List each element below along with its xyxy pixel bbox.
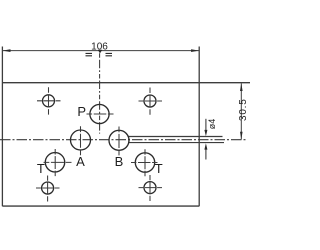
bolt hole bottom-right — [144, 182, 156, 194]
port T left — [45, 153, 64, 172]
plate left edge + left extension line of dim 106 — [1, 47, 3, 207]
plate bottom edge — [2, 205, 199, 207]
symmetry marks = = — [86, 53, 113, 55]
port T right horizontal crosshair — [131, 162, 158, 164]
pilot channel upper line — [128, 136, 223, 138]
port T right vertical crosshair — [144, 149, 146, 176]
port A — [71, 130, 91, 150]
bolt hole bottom-right vertical crosshair — [149, 175, 151, 201]
dim 30.5 bottom arrowhead (down) — [240, 132, 243, 140]
svg-text:T: T — [37, 161, 45, 176]
svg-text:A: A — [76, 154, 85, 169]
svg-text:P: P — [77, 104, 86, 119]
dim o4 upper arrowhead (down) — [204, 130, 207, 136]
dim 106 left arrowhead — [3, 49, 11, 52]
bolt hole top-right — [144, 95, 156, 107]
plate right edge + right extension line of dim 106 — [198, 47, 200, 207]
port P horizontal crosshair — [87, 113, 114, 115]
horizontal center line through A B — [0, 139, 246, 141]
svg-text:ø4: ø4 — [207, 119, 217, 130]
dimension line 106 — [2, 50, 199, 52]
port B vertical crosshair — [118, 127, 120, 156]
port T right — [135, 153, 154, 172]
port B — [109, 130, 129, 150]
bolt hole top-right vertical crosshair — [149, 88, 151, 115]
port P — [90, 104, 109, 123]
bolt hole bottom-right horizontal crosshair — [139, 187, 163, 189]
small center arrow under 106 — [98, 50, 103, 54]
bolt hole top-left — [43, 95, 55, 107]
bolt hole top-left horizontal crosshair — [37, 100, 61, 102]
dim 30.5 line — [240, 83, 242, 139]
bolt hole bottom-left horizontal crosshair — [36, 187, 60, 189]
dim 106 right arrowhead — [191, 49, 199, 52]
pilot channel lower line — [128, 142, 224, 144]
port T left vertical crosshair — [54, 149, 56, 176]
bolt hole top-right horizontal crosshair — [139, 100, 163, 102]
bolt hole top-left vertical crosshair — [48, 87, 50, 114]
bolt hole bottom-left vertical crosshair — [47, 176, 49, 202]
dim 30.5 top arrowhead (up) — [240, 83, 243, 91]
vertical center line through P — [99, 53, 101, 133]
svg-text:30.5: 30.5 — [238, 98, 249, 121]
dim o4 lower arrow line — [205, 149, 207, 160]
dim o4 lower arrowhead (up) — [204, 143, 207, 149]
port A vertical crosshair — [80, 126, 82, 155]
svg-text:T: T — [155, 161, 163, 176]
bolt hole bottom-left — [42, 182, 54, 194]
svg-text:B: B — [115, 154, 124, 169]
dim o4 upper arrow line — [205, 119, 207, 131]
plate top edge (extends to right image edge) — [2, 82, 250, 84]
port T left horizontal crosshair — [44, 161, 72, 163]
